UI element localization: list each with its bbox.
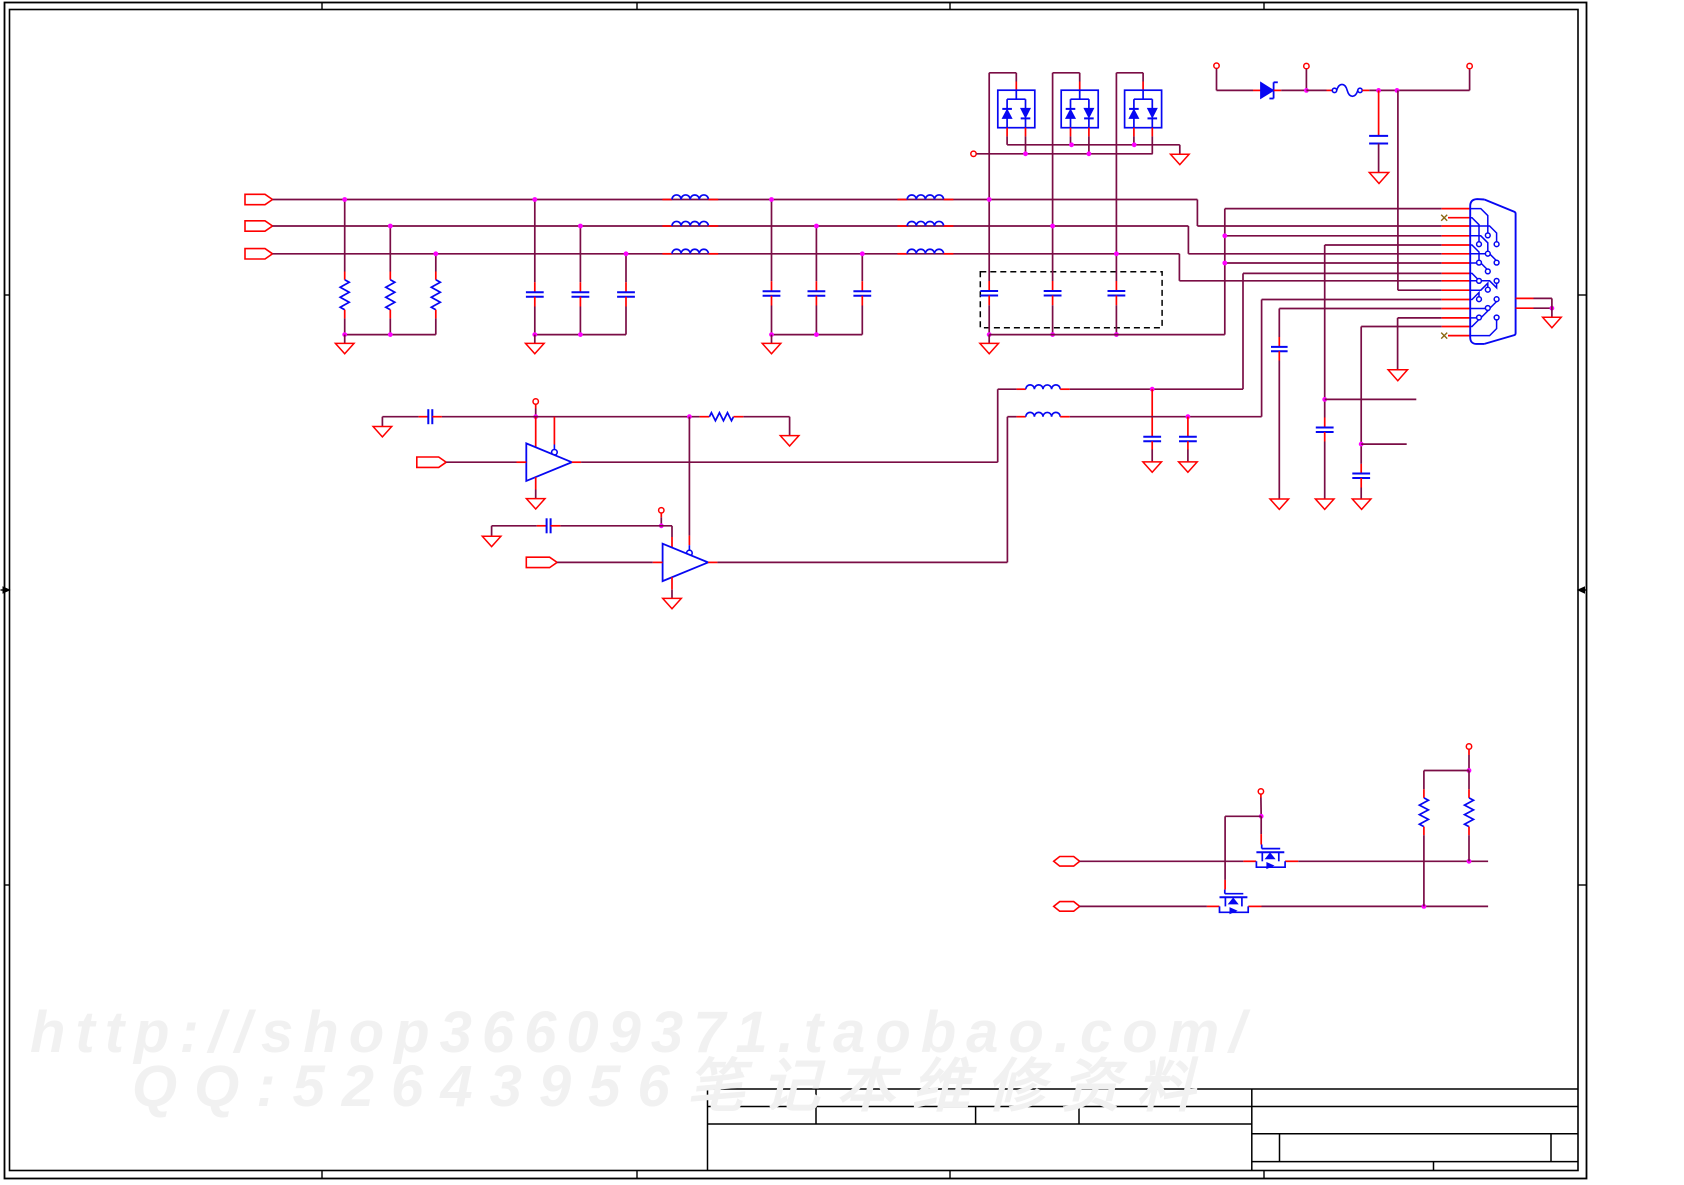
svg-text:QQ:52643956笔记本维修资料: QQ:52643956笔记本维修资料	[132, 1054, 1212, 1119]
